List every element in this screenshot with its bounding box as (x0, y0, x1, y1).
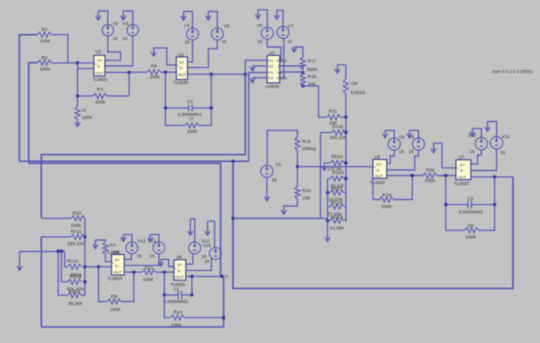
resistor R18 (300, 69, 317, 86)
svg-text:10K: 10K (302, 195, 311, 200)
wire ladder left rail (327, 179, 329, 237)
resistor RA11 (41, 229, 85, 246)
ground above V4 (181, 12, 193, 29)
wire V13 to U4 V- pin (124, 254, 159, 266)
svg-text:TL0820: TL0820 (370, 180, 385, 185)
svg-text:V-: V- (97, 64, 102, 69)
wire line1 U3 out to R10 block (41, 74, 245, 218)
node RA22 right junction (344, 131, 347, 134)
svg-text:r2: r2 (82, 107, 87, 112)
svg-text:294,12K: 294,12K (67, 241, 85, 246)
resistor RA23 (328, 170, 346, 188)
voltage source V4 (184, 23, 199, 44)
wire input rail RA11 (40, 237, 42, 327)
wire V7 to VPOS pin (280, 38, 284, 78)
svg-text:100K: 100K (381, 204, 393, 209)
svg-text:TL0820: TL0820 (173, 80, 188, 85)
op-amp U2 (92, 49, 107, 82)
wire V6 to VNEG pin (267, 39, 281, 60)
resistor R'8 feedback (99, 267, 134, 312)
svg-text:X2: X2 (268, 64, 274, 69)
ground hook above R17 (291, 47, 303, 57)
svg-text:35,56K: 35,56K (68, 301, 83, 306)
node C3 left loop junction (444, 203, 447, 206)
svg-text:15: 15 (184, 40, 190, 45)
op-amp U4 (107, 250, 124, 281)
svg-text:V1: V1 (276, 162, 282, 167)
svg-text:RC11: RC11 (67, 259, 79, 264)
svg-text:R14: R14 (174, 310, 183, 315)
wire V8 to U6 V+ pin (387, 150, 395, 163)
svg-text:R18: R18 (308, 74, 317, 79)
svg-text:15: 15 (272, 178, 278, 183)
capacitor C1 (165, 99, 211, 117)
node C2 right loop junction (190, 293, 193, 296)
ground above V9 (407, 130, 419, 138)
wire R18 bottom to R21 (303, 86, 327, 117)
svg-text:R'8: R'8 (111, 294, 118, 299)
svg-text:V-: V- (179, 66, 184, 71)
svg-text:+: + (457, 166, 459, 170)
wire U7 output (471, 176, 513, 178)
ground left bottom (17, 252, 22, 271)
ground above V15 (205, 221, 215, 247)
svg-text:V+: V+ (115, 258, 121, 263)
ground above V8 (382, 130, 394, 138)
svg-text:0,00000001: 0,00000001 (459, 210, 484, 215)
pin label Z (278, 65, 281, 69)
svg-text:10Meg: 10Meg (302, 146, 316, 151)
ground hook above r20 (335, 65, 340, 73)
svg-text:V7: V7 (288, 23, 294, 28)
ground above V6 (255, 10, 267, 27)
node R'1 left junction (76, 95, 79, 98)
wire U5 output Y (186, 275, 224, 277)
resistor R14 loop (164, 295, 223, 328)
node RB23 left junction (326, 191, 329, 194)
voltage source V6 (257, 23, 274, 44)
resistor R'19 feedback (373, 174, 412, 209)
svg-text:RB23: RB23 (331, 186, 343, 191)
node RD11 right junction (83, 280, 86, 283)
svg-text:RB11: RB11 (69, 289, 81, 294)
svg-text:R3: R3 (42, 55, 48, 60)
svg-text:100K: 100K (82, 115, 94, 120)
op-amp U5 (170, 254, 186, 287)
svg-text:OUT: OUT (175, 275, 184, 280)
svg-text:RA22: RA22 (332, 124, 344, 129)
ground below r2 (75, 120, 80, 127)
svg-text:R25: R25 (426, 168, 435, 173)
node C3 right junction top (493, 175, 496, 178)
ground above V2 (96, 11, 108, 25)
wire line2 feedback bus (19, 160, 248, 162)
resistor RC11 (65, 251, 82, 277)
wire V3 to U2 V- pin (105, 36, 133, 66)
resistor RD22 (327, 154, 346, 171)
svg-text:15: 15 (204, 259, 210, 264)
voltage source V11 (490, 134, 509, 155)
svg-text:15: 15 (399, 149, 405, 154)
svg-text:r7: r7 (189, 117, 194, 122)
svg-text:+: + (177, 64, 179, 68)
svg-text:Y: Y (225, 274, 228, 279)
wire V12 to U4 V+ pin (124, 254, 131, 260)
capacitor C2 (164, 272, 192, 304)
svg-text:100K: 100K (143, 277, 155, 282)
ground at RD22 left (322, 163, 328, 171)
svg-text:r12: r12 (109, 242, 116, 247)
svg-text:TL0820: TL0820 (107, 276, 122, 281)
wire V15 to U5 V- pin (186, 258, 212, 270)
wire feedback down (128, 72, 130, 96)
svg-text:V+: V+ (460, 162, 466, 167)
wire summing rail (84, 218, 86, 295)
svg-text:R21: R21 (329, 109, 338, 114)
ground hook Y2 input (250, 78, 267, 83)
resistor R21 (327, 109, 346, 126)
capacitor C3 (446, 176, 495, 215)
wire bottom rail (41, 326, 223, 328)
svg-text:15: 15 (257, 39, 263, 44)
resistor R10 (41, 211, 85, 228)
ground below ladder (325, 237, 330, 242)
svg-text:+: + (374, 166, 376, 170)
ground above V5 (206, 12, 218, 29)
svg-text:15: 15 (137, 253, 143, 258)
svg-text:100K: 100K (95, 99, 107, 104)
wire V11 to U7 V- pin (471, 149, 497, 171)
svg-text:OUT: OUT (458, 174, 467, 179)
wire U4 output (124, 271, 142, 273)
wire U3 output bus (188, 73, 246, 75)
ground above V12 (121, 235, 132, 242)
node C2 right junction top (190, 275, 193, 278)
svg-text:R'19: R'19 (382, 192, 392, 197)
svg-text:V+: V+ (376, 162, 382, 167)
node RC11 right junction (83, 265, 86, 268)
svg-text:V8: V8 (399, 135, 405, 140)
voltage source V3 (122, 21, 138, 41)
svg-text:R6: R6 (151, 63, 157, 68)
wire loop to ladder (233, 217, 321, 219)
svg-text:OUT: OUT (95, 70, 104, 75)
svg-text:1,852K: 1,852K (107, 250, 120, 255)
svg-text:100K: 100K (40, 39, 52, 44)
svg-text:X1: X1 (268, 58, 274, 63)
svg-text:V+: V+ (177, 263, 183, 268)
wire Y vertical to bottom rail (223, 276, 225, 327)
voltage source V15 (203, 243, 222, 264)
svg-text:100K: 100K (425, 178, 437, 183)
resistor r12 (103, 242, 121, 262)
wire Z pin to R17 R18 junction (280, 66, 303, 69)
wire R3 left rail to line3 (29, 63, 38, 163)
node R21 right junction (344, 116, 347, 119)
pin label W (278, 71, 282, 75)
op-amp U3 (173, 52, 188, 85)
node U2 input junction (76, 61, 79, 64)
node C3 left junction (444, 174, 447, 177)
wire W output to divider (280, 71, 303, 73)
svg-text:RD23: RD23 (331, 215, 343, 220)
resistor R6 (129, 63, 176, 79)
node C1 branch junction (210, 73, 213, 76)
svg-text:R4: R4 (42, 27, 48, 32)
svg-text:V-: V- (460, 168, 465, 173)
node RA23 right junction (344, 177, 347, 180)
node R'8 branch junction (97, 265, 100, 268)
svg-text:15: 15 (113, 36, 119, 41)
svg-text:U5: U5 (176, 254, 182, 259)
svg-text:C1: C1 (187, 99, 193, 104)
svg-text:AD633: AD633 (266, 84, 280, 89)
node loop ladder junction (232, 217, 235, 220)
ground below V1 (264, 178, 269, 201)
resistor R15 (295, 167, 312, 201)
resistor RD11 (61, 251, 85, 291)
wire RA22 left rail down (321, 133, 328, 219)
svg-text:r26: r26 (467, 223, 474, 228)
op-amp U6 (370, 155, 387, 185)
svg-text:U7: U7 (459, 155, 465, 160)
node C2 left junction top (163, 271, 166, 274)
voltage source V1 (261, 162, 282, 183)
svg-text:V11: V11 (502, 134, 510, 139)
resistor R16 (295, 130, 316, 166)
resistor R4 (37, 27, 51, 43)
svg-text:RA11: RA11 (71, 229, 83, 234)
voltage source V7 (277, 23, 294, 44)
svg-text:TL0820: TL0820 (92, 77, 107, 82)
voltage source V10 (468, 133, 488, 154)
wire U2 input rail down to feedback node (78, 63, 94, 96)
svg-text:Y1: Y1 (268, 70, 274, 75)
svg-text:Y2: Y2 (268, 76, 274, 81)
voltage source V14 (189, 238, 210, 258)
ground above V13 (148, 235, 159, 242)
svg-text:V+: V+ (179, 60, 185, 65)
svg-text:14,29K: 14,29K (330, 226, 345, 231)
svg-text:990K: 990K (307, 67, 319, 72)
svg-text:.tran 0 0.2 0 0.00001: .tran 0 0.2 0 0.00001 (492, 69, 534, 74)
svg-text:V-: V- (376, 168, 381, 173)
resistor r2 (75, 96, 94, 120)
svg-text:100K: 100K (71, 223, 83, 228)
svg-text:15: 15 (222, 39, 228, 44)
wire U3 inverting input down to C1 loop (164, 72, 166, 108)
node U4 output junction (132, 271, 135, 274)
svg-text:TL0820: TL0820 (454, 181, 469, 186)
ground hook U3 non-inverting input (151, 48, 176, 65)
resistor RD23 (328, 215, 346, 231)
wire V4 to U3 V+ pin (188, 40, 193, 62)
wire main loop vertical (233, 161, 513, 288)
voltage source V9 (409, 135, 425, 155)
node R17 R18 junction (301, 72, 304, 75)
resistor R3 (37, 55, 51, 71)
svg-text:100K: 100K (465, 235, 477, 240)
ground above V10 (470, 129, 482, 138)
wire U2 output (105, 71, 129, 73)
svg-text:R10: R10 (73, 211, 82, 216)
svg-text:RD11: RD11 (70, 274, 82, 279)
node C3 right loop junction (493, 203, 496, 206)
node C1 left junction (164, 106, 167, 109)
svg-text:R'1: R'1 (97, 87, 104, 92)
svg-text:+: + (95, 62, 97, 66)
svg-text:VNEG: VNEG (276, 59, 287, 63)
wire line3 R3 to Y node (29, 163, 221, 276)
svg-text:V12: V12 (137, 238, 146, 243)
node R'19 junction (411, 174, 414, 177)
svg-text:15: 15 (122, 36, 128, 41)
ground hook above r12 (93, 240, 106, 249)
node ground rail junction 1 (57, 250, 60, 253)
svg-text:15: 15 (149, 253, 155, 258)
svg-text:294,12K: 294,12K (329, 135, 347, 140)
wire V1 to R16 top (267, 130, 297, 164)
svg-text:U1: U1 (269, 50, 275, 55)
svg-text:100K: 100K (149, 75, 161, 80)
wire ground rail (20, 251, 65, 253)
wire V10 to U7 V+ pin (471, 150, 482, 164)
svg-text:V4: V4 (184, 23, 190, 28)
node X1 branch junction (244, 73, 247, 76)
wire branch down to C1 loop (210, 74, 212, 108)
wire R4 right to summing node (51, 35, 67, 63)
node C1 right junction (210, 106, 213, 109)
ground above V14 (188, 219, 195, 242)
svg-text:100K: 100K (187, 129, 199, 134)
svg-text:0,00000001: 0,00000001 (164, 299, 189, 304)
svg-text:R16: R16 (302, 139, 311, 144)
svg-text:R15: R15 (302, 188, 311, 193)
resistor r7 feedback loop (165, 108, 211, 134)
wire V2 to U2 V+ pin (105, 36, 121, 60)
node RA11 right junction (83, 235, 86, 238)
resistor r26 loop (446, 205, 495, 240)
voltage source V8 (388, 135, 405, 155)
svg-text:OUT: OUT (113, 270, 122, 275)
svg-text:5,681K: 5,681K (351, 90, 366, 95)
op-amp U7 (454, 155, 471, 186)
voltage source V12 (126, 238, 146, 258)
resistor r20 (337, 65, 366, 118)
svg-text:OUT: OUT (178, 72, 187, 77)
svg-text:V2: V2 (113, 21, 119, 26)
analysis directive (492, 69, 534, 74)
svg-text:RC23: RC23 (331, 200, 343, 205)
svg-text:R17: R17 (308, 59, 317, 64)
pin label VPOS (276, 77, 287, 81)
ground above V3 (121, 11, 133, 25)
svg-text:C2: C2 (174, 287, 180, 292)
svg-text:V15: V15 (203, 243, 212, 248)
voltage source V2 (102, 21, 119, 41)
svg-text:V+: V+ (97, 58, 103, 63)
wire R4 left rail to line2 (19, 35, 37, 162)
svg-text:15: 15 (500, 150, 506, 155)
svg-text:V6: V6 (257, 23, 263, 28)
node R18 bottom junction (301, 84, 304, 87)
svg-text:V3: V3 (123, 21, 129, 26)
node U2 output junction (128, 71, 131, 74)
svg-text:RD22: RD22 (331, 154, 343, 159)
wire R15 to ground (281, 199, 297, 215)
resistor RB23 (328, 186, 346, 202)
wire Y1 input from line2 (249, 73, 268, 162)
node R6 right junction (164, 71, 167, 74)
ground hook U5 noninverting input (158, 259, 174, 266)
multiplier U1 AD633 (266, 50, 280, 89)
svg-text:C3: C3 (467, 196, 473, 201)
svg-text:U6: U6 (375, 155, 381, 160)
svg-text:r20: r20 (351, 81, 358, 86)
svg-text:R13: R13 (145, 265, 154, 270)
node R15 R16 junction (296, 165, 299, 168)
wire U6 noninverting input feed (297, 166, 373, 168)
svg-text:U3: U3 (178, 52, 184, 57)
svg-text:RA23: RA23 (332, 170, 344, 175)
wire summing node to U4 (85, 266, 112, 268)
resistor R17 (300, 57, 318, 71)
svg-text:V-: V- (177, 269, 182, 274)
pin label VNEG (276, 59, 287, 63)
wire V9 to U6 V- pin (387, 150, 419, 170)
wire U6 output (387, 175, 423, 177)
wire X1 input branch (245, 60, 267, 74)
ground hook X2 input (250, 66, 267, 71)
svg-text:15: 15 (287, 39, 293, 44)
node RD22 right junction (344, 161, 347, 164)
voltage source V5 (211, 23, 230, 44)
svg-text:15: 15 (469, 149, 475, 154)
wire V14 to U5 V+ pin (186, 254, 193, 264)
node Y (221, 274, 229, 279)
resistor RC23 (327, 200, 346, 216)
svg-text:V-: V- (115, 263, 120, 268)
resistor R13 (142, 265, 174, 282)
node C2 left loop junction (163, 293, 166, 296)
ground hook U7 noninverting input (431, 143, 456, 168)
wire R3 right to U2 inverting input (51, 62, 94, 64)
wire V5 to U3 V- pin (188, 40, 218, 68)
node R14 right junction (222, 316, 225, 319)
node line2 junction (232, 160, 235, 163)
svg-text:OUT: OUT (375, 174, 384, 179)
svg-text:+: + (174, 267, 176, 271)
node RD23 left junction (326, 219, 329, 222)
svg-text:15: 15 (409, 149, 415, 154)
svg-text:100K: 100K (110, 307, 122, 312)
resistor R25 (423, 168, 456, 183)
ground above V7 (274, 10, 283, 26)
resistor RA22 (321, 124, 348, 140)
resistor R'1 (78, 87, 130, 104)
ground above V11 (485, 122, 497, 137)
resistor RB11 (58, 251, 85, 306)
wire divider rail (345, 117, 347, 220)
svg-text:100K: 100K (40, 67, 52, 72)
svg-text:+: + (112, 261, 114, 265)
svg-text:VPOS: VPOS (276, 77, 287, 81)
node ground rail junction 2 (60, 250, 63, 253)
voltage source V13 (148, 238, 165, 258)
svg-text:U2: U2 (96, 49, 102, 54)
svg-text:V5: V5 (224, 23, 230, 28)
